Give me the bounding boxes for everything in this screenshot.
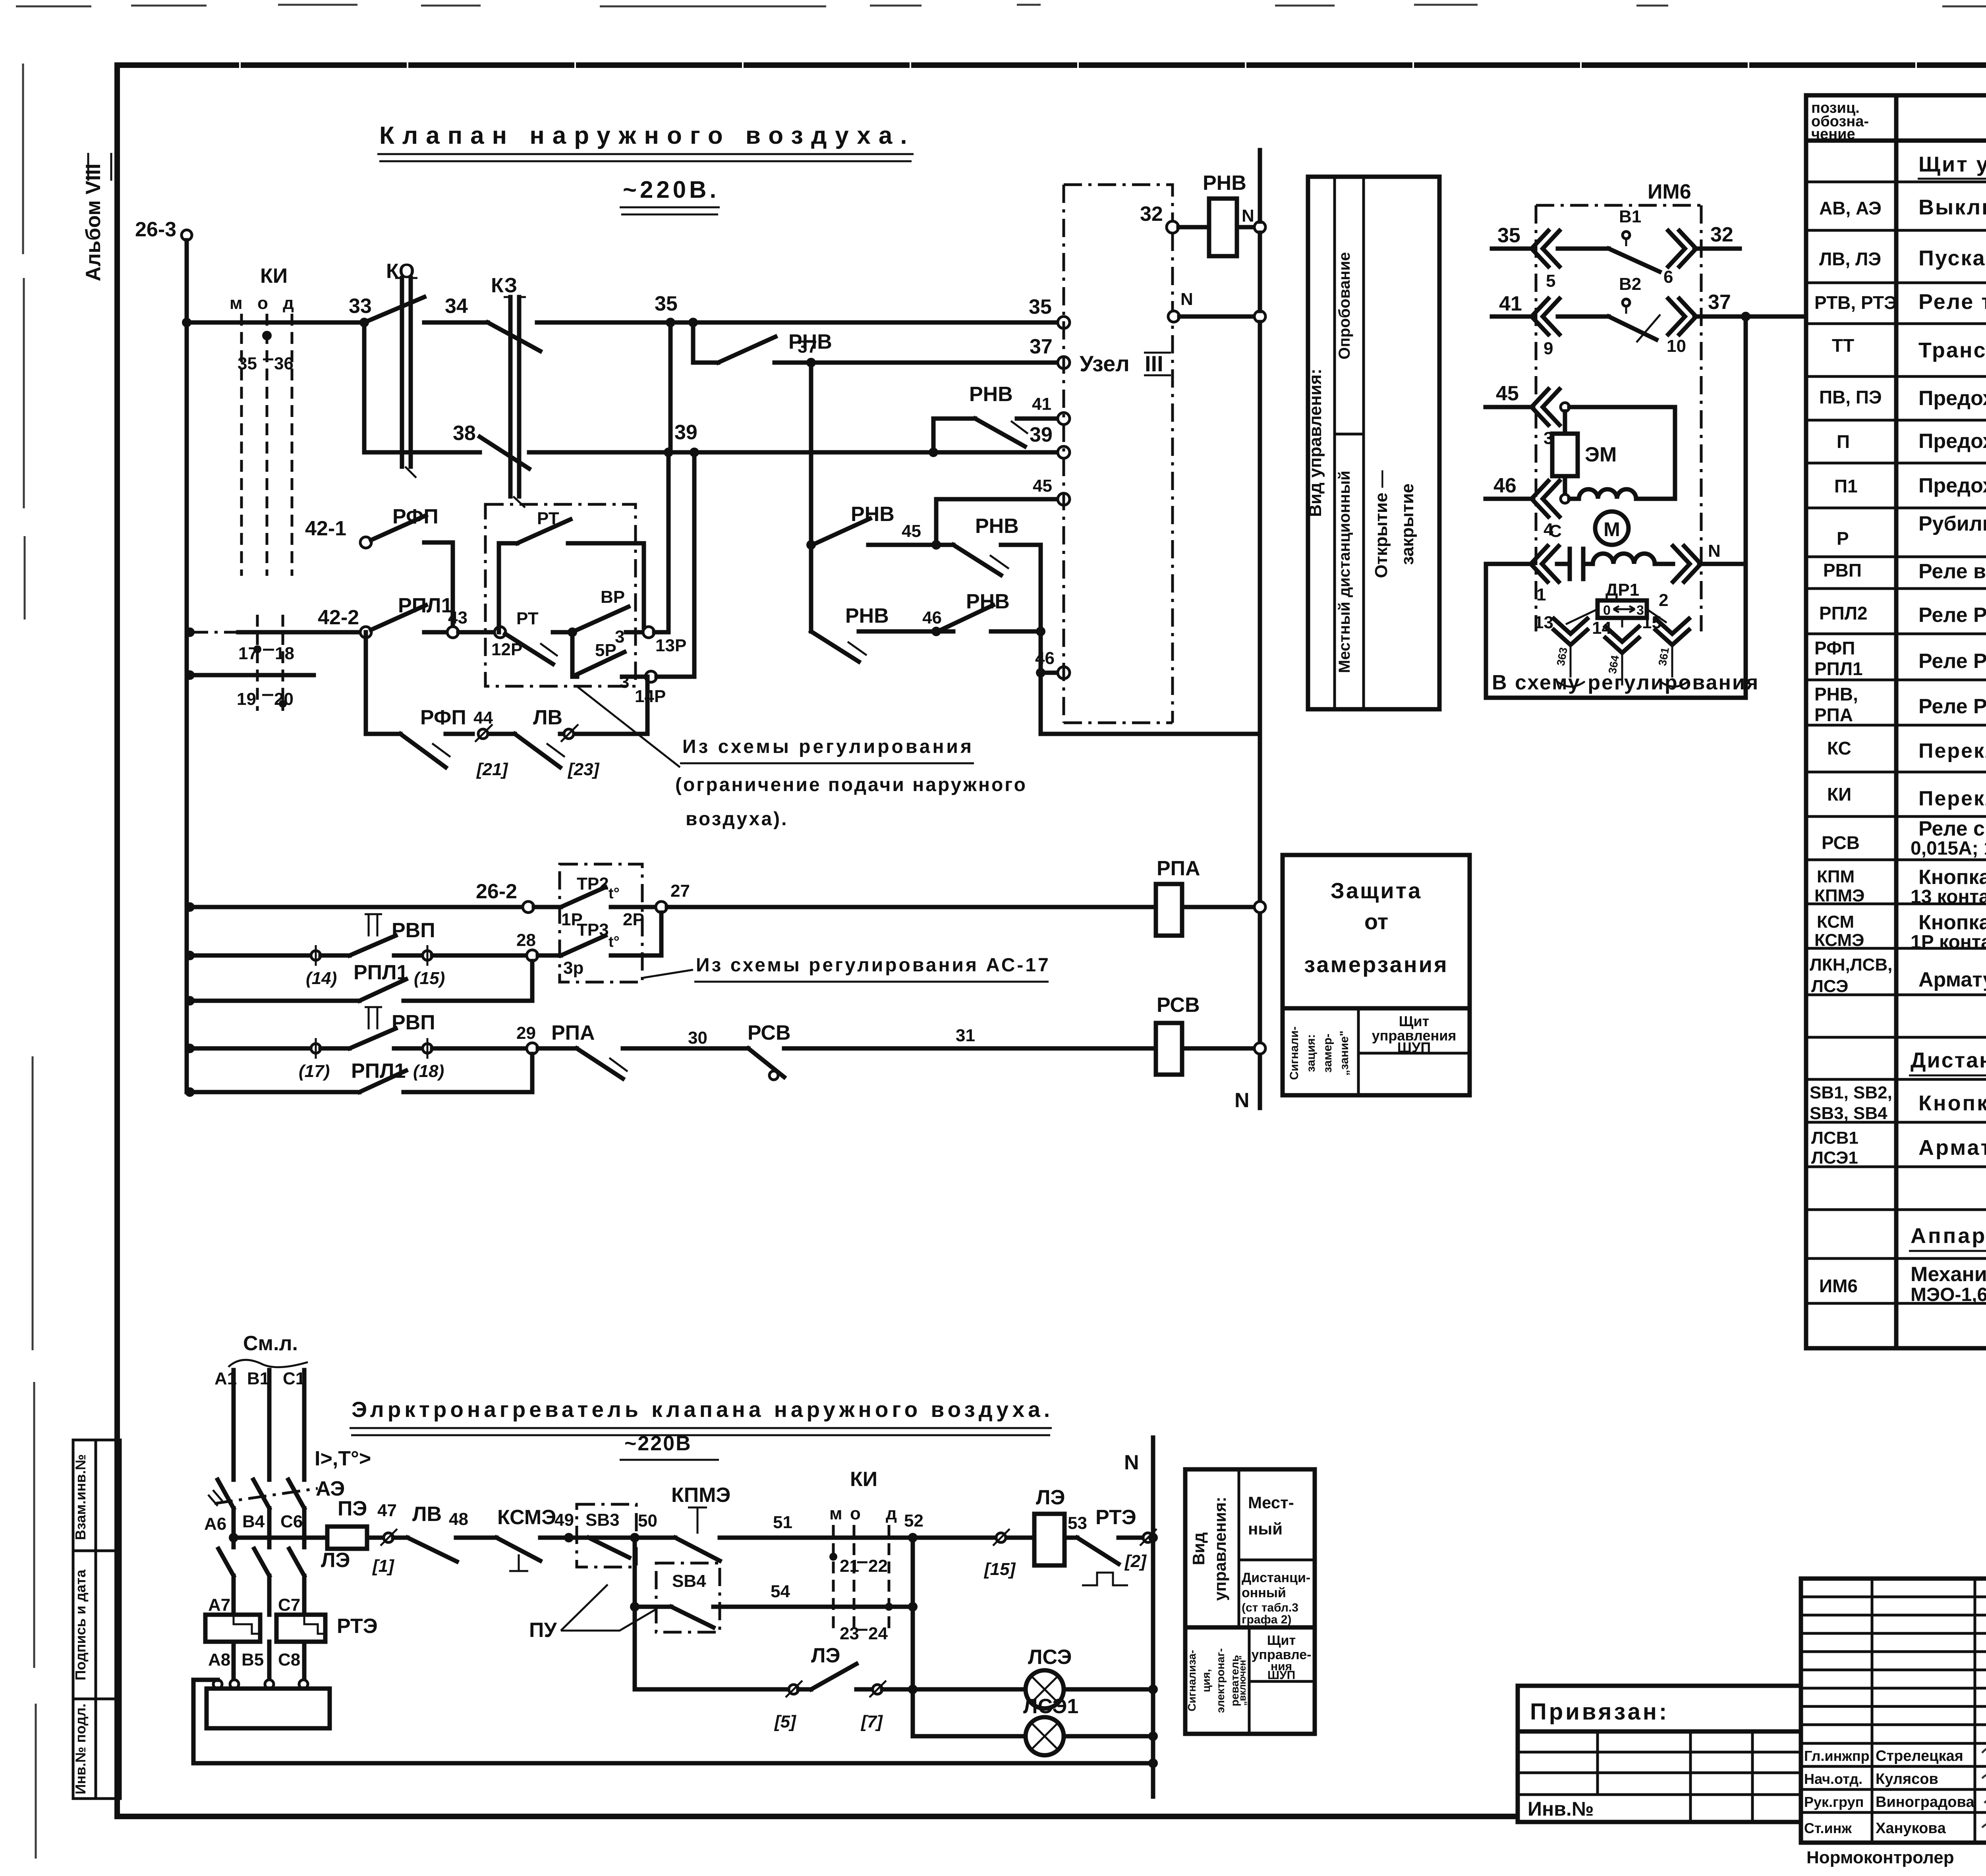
connector pin (14) bbox=[311, 951, 321, 960]
wire bbox=[1558, 315, 1609, 319]
svg-text:Механизм исполнительный: Механизм исполнительный bbox=[1911, 1263, 1986, 1286]
svg-text:А8: А8 bbox=[208, 1650, 230, 1669]
wire to КИ bbox=[727, 1536, 908, 1540]
box Вид управления (upper) bbox=[1308, 177, 1439, 709]
wire bbox=[489, 732, 515, 736]
wire: left supply bus bbox=[185, 240, 189, 1092]
svg-text:44: 44 bbox=[473, 708, 493, 728]
svg-text:Подпись и дата: Подпись и дата bbox=[72, 1569, 89, 1681]
connector chevron (32 out) bbox=[1668, 231, 1696, 266]
svg-text:SВ3, SВ4: SВ3, SВ4 bbox=[1810, 1104, 1887, 1123]
svg-text:РПЛ1: РПЛ1 bbox=[1814, 658, 1863, 679]
svg-text:ция,: ция, bbox=[1200, 1669, 1212, 1693]
svg-text:(ограничение подачи наружного: (ограничение подачи наружного bbox=[675, 774, 1027, 795]
wire: loop top bbox=[1569, 407, 1675, 499]
svg-text:5: 5 bbox=[1546, 271, 1555, 291]
svg-text:Гл.инжпр: Гл.инжпр bbox=[1804, 1748, 1870, 1764]
svg-text:закрытие: закрытие bbox=[1398, 483, 1417, 565]
svg-text:13Р: 13Р bbox=[655, 636, 686, 655]
node 14Р terminal bbox=[645, 671, 657, 682]
svg-text:РФП: РФП bbox=[420, 706, 466, 729]
solenoid ЭМ bbox=[1563, 411, 1567, 494]
svg-text:Взам.инв.№: Взам.инв.№ bbox=[72, 1454, 89, 1540]
connector pin (18) bbox=[423, 1044, 432, 1053]
connector pin [23] bbox=[564, 729, 574, 739]
svg-text:ШУП: ШУП bbox=[1267, 1669, 1295, 1682]
svg-text:РСВ: РСВ bbox=[1157, 994, 1200, 1017]
svg-text:Ст.инж: Ст.инж bbox=[1804, 1820, 1852, 1836]
svg-text:м: м bbox=[230, 293, 243, 313]
svg-text:Рубильник ~660В: Рубильник ~660В bbox=[1918, 512, 1986, 535]
svg-text:онный: онный bbox=[1242, 1585, 1286, 1600]
wire: rail 38-39 bbox=[364, 450, 1058, 455]
svg-text:замер-: замер- bbox=[1321, 1034, 1334, 1073]
node 37 bbox=[806, 358, 816, 367]
svg-text:39: 39 bbox=[674, 421, 697, 444]
svg-text:РТВ, РТЭ: РТВ, РТЭ bbox=[1814, 292, 1897, 313]
svg-text:РСВ: РСВ bbox=[748, 1021, 791, 1044]
svg-text:t°: t° bbox=[609, 934, 620, 950]
node 33 bbox=[359, 318, 369, 327]
svg-text:Сигнализа-: Сигнализа- bbox=[1186, 1650, 1198, 1711]
node on КИ contact О bbox=[262, 331, 272, 340]
svg-text:[1]: [1] bbox=[372, 1556, 394, 1576]
connector chevron (35 in) bbox=[1532, 231, 1559, 266]
svg-text:„включен": „включен" bbox=[1237, 1655, 1248, 1706]
wire: right vertical 45->46->N bbox=[1039, 545, 1043, 734]
svg-text:КИ: КИ bbox=[850, 1468, 877, 1491]
svg-text:Реле сигнальное РУ21/0,015: Реле сигнальное РУ21/0,015 bbox=[1918, 817, 1986, 840]
node bbox=[1561, 403, 1569, 411]
svg-text:КСМЭ: КСМЭ bbox=[497, 1506, 556, 1529]
svg-text:ЛКН,ЛСВ,: ЛКН,ЛСВ, bbox=[1810, 955, 1892, 975]
svg-text:Сигнали-: Сигнали- bbox=[1288, 1027, 1301, 1080]
wire: lower РФП-ЛВ rail bbox=[366, 632, 400, 734]
svg-text:30: 30 bbox=[688, 1028, 707, 1048]
svg-text:ЛСЭ: ЛСЭ bbox=[1811, 977, 1848, 996]
svg-text:31: 31 bbox=[956, 1026, 975, 1045]
svg-text:Открытие —: Открытие — bbox=[1372, 470, 1391, 578]
svg-text:А6: А6 bbox=[204, 1514, 226, 1534]
svg-text:Щит: Щит bbox=[1399, 1013, 1429, 1029]
svg-text:0: 0 bbox=[1603, 603, 1611, 618]
svg-text:46: 46 bbox=[922, 608, 942, 627]
svg-text:3р: 3р bbox=[563, 958, 583, 978]
wire: row С lead bbox=[1486, 562, 1533, 566]
svg-text:Из схемы регулирования АС-17: Из схемы регулирования АС-17 bbox=[696, 955, 1051, 976]
svg-text:ПВ, ПЭ: ПВ, ПЭ bbox=[1819, 387, 1882, 407]
svg-text:Из схемы регулирования: Из схемы регулирования bbox=[682, 736, 974, 757]
svg-text:Хануковa: Хануковa bbox=[1876, 1820, 1946, 1837]
connector pin (17) bbox=[311, 1044, 321, 1053]
svg-text:Местный дистанционный: Местный дистанционный bbox=[1336, 471, 1353, 673]
svg-text:14Р: 14Р bbox=[635, 687, 666, 706]
svg-text:АВ, АЭ: АВ, АЭ bbox=[1819, 198, 1882, 218]
thermal element РТЭ (right) bbox=[276, 1615, 325, 1642]
svg-text:N: N bbox=[1124, 1451, 1139, 1474]
svg-text:50: 50 bbox=[638, 1511, 657, 1531]
svg-text:РПЛ1: РПЛ1 bbox=[351, 1060, 406, 1083]
svg-text:С6: С6 bbox=[280, 1512, 303, 1531]
svg-text:SВ4: SВ4 bbox=[672, 1571, 706, 1591]
svg-text:45: 45 bbox=[1496, 382, 1519, 405]
node on 52 vertical bbox=[908, 1602, 918, 1612]
node on rail 39 at vertical B bbox=[690, 448, 699, 457]
node on 37 row bbox=[1741, 312, 1750, 321]
node 26-2 terminal bbox=[523, 901, 534, 913]
svg-text:КИ: КИ bbox=[1827, 784, 1851, 805]
terminal N (row) bbox=[1168, 311, 1179, 322]
wire: vertical from node 37 down to 46 row bbox=[809, 363, 813, 631]
svg-text:(14): (14) bbox=[306, 969, 337, 988]
wire: node 50 vertical to lamp row bbox=[635, 1607, 789, 1689]
svg-text:41: 41 bbox=[1499, 292, 1522, 315]
button SВ3 in remote box bbox=[577, 1504, 636, 1567]
svg-text:ТТ: ТТ bbox=[1832, 335, 1854, 356]
svg-text:(ст табл.3: (ст табл.3 bbox=[1242, 1601, 1298, 1614]
heater bank bbox=[213, 1680, 222, 1689]
node 42-1 terminal bbox=[360, 537, 371, 548]
wire: 27 to РПА coil bbox=[667, 905, 1156, 909]
node N circle on bus (coil row) bbox=[1254, 222, 1265, 233]
svg-text:КЗ: КЗ bbox=[491, 274, 517, 297]
svg-text:ЛСЭ: ЛСЭ bbox=[1028, 1646, 1072, 1669]
svg-text:Рук.груп: Рук.груп bbox=[1804, 1794, 1864, 1810]
svg-text:Реле РПУ1-361, ~220В, 8з: Реле РПУ1-361, ~220В, 8з bbox=[1918, 604, 1986, 627]
wire: N return to right bus bbox=[1041, 732, 1260, 736]
node 45 row junction bbox=[931, 540, 941, 550]
svg-text:32: 32 bbox=[1140, 203, 1163, 226]
svg-text:2Р: 2Р bbox=[623, 910, 644, 929]
switch КС contacts 17-18 / 19-20 dashed bbox=[257, 615, 283, 711]
svg-text:t°: t° bbox=[609, 885, 620, 902]
svg-text:Щит управления 14ЩУВ (15ЩУВ): Щит управления 14ЩУВ (15ЩУВ) bbox=[1918, 152, 1986, 176]
svg-text:37: 37 bbox=[798, 337, 817, 357]
svg-text:[15]: [15] bbox=[983, 1559, 1016, 1579]
wire: 52 vertical down bbox=[911, 1538, 915, 1736]
svg-text:22: 22 bbox=[868, 1556, 888, 1576]
node 29 terminal bbox=[527, 1043, 538, 1054]
svg-text:[23]: [23] bbox=[567, 760, 600, 779]
svg-text:3: 3 bbox=[620, 672, 629, 692]
svg-text:В схему регулирования: В схему регулирования bbox=[1492, 671, 1759, 694]
svg-text:КПМ: КПМ bbox=[1817, 867, 1855, 886]
svg-text:Вид: Вид bbox=[1189, 1532, 1208, 1565]
svg-text:Клапан наружного воздуха.: Клапан наружного воздуха. bbox=[379, 122, 915, 149]
wire: vertical B from rail39 to 14Р row bbox=[692, 452, 697, 677]
svg-text:51: 51 bbox=[773, 1513, 792, 1532]
stamp box Привязан bbox=[1518, 1686, 1801, 1822]
svg-text:замерзания: замерзания bbox=[1304, 952, 1448, 977]
leader line АС-17 note bbox=[643, 970, 693, 978]
svg-text:КПМЭ: КПМЭ bbox=[671, 1484, 730, 1507]
node on А6 pole bbox=[229, 1533, 238, 1542]
svg-text:КПМЭ: КПМЭ bbox=[1814, 886, 1864, 905]
svg-text:В4: В4 bbox=[242, 1512, 265, 1531]
node on rail 39 at 41-branch bbox=[929, 448, 938, 457]
svg-text:(17): (17) bbox=[299, 1062, 330, 1081]
capacitor С bbox=[1557, 549, 1593, 579]
contactor ЛЭ main poles bbox=[234, 1538, 304, 1547]
svg-text:ИМ6: ИМ6 bbox=[1648, 180, 1691, 203]
svg-text:Защита: Защита bbox=[1331, 878, 1422, 903]
wires into heater bbox=[234, 1642, 304, 1680]
svg-text:чение: чение bbox=[1811, 126, 1855, 143]
svg-text:27: 27 bbox=[670, 881, 690, 901]
svg-text:д: д bbox=[283, 293, 294, 313]
svg-text:35: 35 bbox=[1497, 224, 1520, 247]
node 45-row left bbox=[806, 540, 816, 550]
svg-text:МЭО-1,6/25 - 0,25И: МЭО-1,6/25 - 0,25И bbox=[1911, 1284, 1986, 1305]
wire: right N bus bbox=[1258, 150, 1262, 1108]
breaker АЭ (3 poles) bbox=[218, 1480, 304, 1508]
button SВ4 in remote box bbox=[656, 1563, 720, 1632]
svg-text:РНВ: РНВ bbox=[969, 383, 1013, 406]
inductor winding (С row) bbox=[1593, 554, 1655, 564]
svg-text:С: С bbox=[1549, 521, 1562, 541]
svg-text:Пускатель магнитный: Пускатель магнитный bbox=[1918, 246, 1986, 270]
svg-text:Инв.№: Инв.№ bbox=[1528, 1798, 1594, 1820]
connector chevron (46 in) bbox=[1532, 481, 1559, 517]
node 43 terminal bbox=[447, 627, 458, 638]
wire: 45 row bbox=[868, 543, 953, 547]
wire: right return vertical bbox=[1744, 317, 1748, 698]
svg-text:управления:: управления: bbox=[1211, 1497, 1229, 1601]
svg-text:1: 1 bbox=[1536, 585, 1546, 604]
svg-text:ЛВ, ЛЭ: ЛВ, ЛЭ bbox=[1819, 249, 1881, 269]
svg-text:35: 35 bbox=[1029, 295, 1052, 318]
svg-text:(18): (18) bbox=[413, 1062, 444, 1081]
svg-text:См.л.: См.л. bbox=[243, 1332, 298, 1355]
wire: row 37 to table edge bbox=[1694, 315, 1806, 319]
svg-text:РТЭ: РТЭ bbox=[1095, 1506, 1136, 1529]
svg-text:КСМ: КСМ bbox=[1817, 912, 1854, 932]
wires from ДР1 to connectors bbox=[1566, 609, 1667, 627]
connector pin [2] bbox=[1143, 1533, 1153, 1542]
svg-text:Стрелецкая: Стрелецкая bbox=[1876, 1748, 1963, 1764]
svg-text:С8: С8 bbox=[278, 1650, 300, 1669]
svg-text:Предохранитель ПРС-6-П,~380В,: Предохранитель ПРС-6-П,~380В,ПВД-6 bbox=[1918, 387, 1986, 410]
wire: С row left loop bbox=[1486, 564, 1746, 698]
svg-text:[7]: [7] bbox=[860, 1712, 883, 1731]
svg-text:РПА: РПА bbox=[1157, 857, 1200, 880]
svg-text:6: 6 bbox=[1663, 267, 1673, 287]
node 35 bbox=[666, 318, 675, 327]
svg-text:26-2: 26-2 bbox=[476, 880, 517, 903]
svg-text:45: 45 bbox=[1033, 476, 1052, 496]
terminal 46 bbox=[1058, 667, 1070, 679]
wire: row 32 right lead bbox=[1694, 247, 1740, 251]
svg-text:Виноградова: Виноградова bbox=[1876, 1794, 1974, 1810]
node 52 bbox=[908, 1533, 918, 1542]
svg-text:РНВ,: РНВ, bbox=[1814, 684, 1858, 704]
boundary узел III dash-dot bbox=[1064, 185, 1173, 222]
svg-text:23: 23 bbox=[840, 1624, 859, 1643]
svg-text:П: П bbox=[1837, 431, 1850, 452]
wire: 41 branch bbox=[933, 419, 1058, 452]
connector pin [7] bbox=[873, 1685, 882, 1694]
brace curve bbox=[1557, 681, 1688, 687]
svg-text:43: 43 bbox=[448, 608, 468, 627]
svg-text:ЛСЭ1: ЛСЭ1 bbox=[1023, 1695, 1078, 1718]
svg-text:электронаг-: электронаг- bbox=[1214, 1648, 1227, 1713]
wire: to 28 bbox=[432, 953, 527, 958]
box Сигнализация замерзание bbox=[1283, 1008, 1470, 1095]
wire: 13Р to vertical A bbox=[654, 630, 668, 635]
connector pin (15) bbox=[423, 951, 432, 960]
left bottom stamp box bbox=[73, 1440, 120, 1799]
svg-text:45: 45 bbox=[902, 521, 921, 541]
terminal 37 bbox=[1058, 357, 1070, 369]
svg-text:Реле РПУ1-362,·~220В, 6з+2р: Реле РПУ1-362,·~220В, 6з+2р bbox=[1918, 650, 1986, 673]
svg-text:Привязан:: Привязан: bbox=[1530, 1699, 1669, 1725]
connector chevron (45 in) bbox=[1532, 389, 1559, 425]
svg-text:41: 41 bbox=[1032, 394, 1051, 414]
thermal element РТЭ (left) bbox=[205, 1615, 260, 1642]
connector chevron (37 out) bbox=[1668, 299, 1696, 334]
wire to node 29 bbox=[432, 1046, 527, 1051]
svg-text:ЛСЭ1: ЛСЭ1 bbox=[1811, 1148, 1858, 1168]
svg-text:13 контакт: 13 контакт bbox=[1911, 886, 1986, 907]
svg-text:воздуха).: воздуха). bbox=[686, 809, 788, 830]
svg-text:РНВ: РНВ bbox=[975, 515, 1019, 538]
svg-text:Элрктронагреватель клапана н: Элрктронагреватель клапана наружного воз… bbox=[352, 1397, 1053, 1422]
wire 52 to ЛЭ coil bbox=[913, 1536, 1034, 1540]
svg-text:33: 33 bbox=[349, 295, 372, 318]
leader line to note bbox=[577, 686, 680, 767]
svg-text:П1: П1 bbox=[1834, 476, 1858, 496]
wire: stub rail 19-20 bbox=[190, 673, 314, 677]
svg-text:Арматура сигнальная: Арматура сигнальная bbox=[1918, 1136, 1986, 1160]
svg-text:52: 52 bbox=[904, 1511, 923, 1531]
svg-text:35: 35 bbox=[238, 354, 257, 373]
svg-text:КС: КС bbox=[1827, 738, 1851, 759]
svg-text:РФП: РФП bbox=[392, 505, 439, 528]
svg-text:Реле времени ВС-10-63,~220В,6: Реле времени ВС-10-63,~220В,6П bbox=[1918, 560, 1986, 583]
svg-text:ИМ6: ИМ6 bbox=[1819, 1276, 1858, 1296]
svg-text:Альбом VIII: Альбом VIII bbox=[82, 164, 105, 282]
svg-text:ДР1: ДР1 bbox=[1605, 580, 1639, 600]
wire: 33 down to rail 38 bbox=[362, 322, 367, 452]
svg-text:N: N bbox=[1180, 290, 1193, 309]
box Защита от замерзания bbox=[1283, 855, 1470, 1008]
wire: РНВ branch from rail1 to rail 37 bbox=[693, 322, 718, 363]
svg-text:Кнопка управления КМЕ 6101: Кнопка управления КМЕ 6101 bbox=[1918, 911, 1986, 934]
svg-text:РПА: РПА bbox=[1814, 704, 1853, 725]
connector chevron (С row) bbox=[1531, 546, 1559, 582]
node on rail 39 at vertical A bbox=[664, 448, 673, 457]
svg-text:9: 9 bbox=[1544, 339, 1553, 358]
svg-text:36: 36 bbox=[274, 354, 294, 373]
svg-text:(15): (15) bbox=[414, 969, 445, 988]
svg-text:от: от bbox=[1364, 909, 1388, 934]
svg-text:Предохранитель ППТ-10,~250В,: Предохранитель ППТ-10,~250В, ВТФ-6 bbox=[1918, 474, 1986, 497]
node bbox=[1561, 494, 1569, 503]
svg-text:В5: В5 bbox=[241, 1650, 264, 1669]
svg-text:РТЭ: РТЭ bbox=[337, 1615, 378, 1638]
svg-text:Аппаратура по месту: Аппаратура по месту bbox=[1911, 1224, 1986, 1248]
svg-text:ПЭ: ПЭ bbox=[338, 1497, 367, 1520]
svg-text:53: 53 bbox=[1068, 1513, 1087, 1533]
svg-text:I>,Т°>: I>,Т°> bbox=[315, 1447, 371, 1470]
svg-text:ВР: ВР bbox=[601, 587, 625, 607]
wire: heater return bbox=[193, 1680, 1153, 1763]
svg-text:о: о bbox=[850, 1504, 861, 1523]
svg-text:зация:: зация: bbox=[1304, 1034, 1318, 1072]
wire: rail 1 (nodes 33-34-35) bbox=[187, 320, 1058, 325]
svg-text:ЛЭ: ЛЭ bbox=[1036, 1486, 1065, 1509]
node 27 terminal bbox=[656, 901, 667, 913]
svg-text:39: 39 bbox=[1030, 423, 1053, 446]
svg-text:ЭМ: ЭМ bbox=[1585, 443, 1617, 466]
terminal 45 bbox=[1058, 493, 1070, 505]
svg-text:49: 49 bbox=[554, 1510, 574, 1530]
svg-text:19: 19 bbox=[237, 689, 256, 709]
svg-text:18: 18 bbox=[275, 644, 294, 663]
svg-text:34: 34 bbox=[445, 295, 468, 318]
svg-text:42-1: 42-1 bbox=[305, 517, 346, 540]
terminal 32 bbox=[1167, 221, 1178, 233]
svg-text:С1: С1 bbox=[283, 1369, 305, 1388]
node 12Р terminal bbox=[495, 627, 506, 638]
wire: 43 to 12Р bbox=[458, 630, 495, 635]
svg-text:48: 48 bbox=[449, 1509, 468, 1529]
svg-text:КИ: КИ bbox=[260, 264, 288, 288]
svg-text:46: 46 bbox=[1035, 648, 1055, 668]
svg-text:Переключатель ПКУ3-16 И 2014: Переключатель ПКУ3-16 И 2014 bbox=[1918, 739, 1986, 762]
wire: rail 26-2 to 27 bbox=[190, 905, 523, 909]
svg-text:ПУ: ПУ bbox=[529, 1619, 557, 1642]
svg-text:Дистанционный пост управления: Дистанционный пост управления ПУ bbox=[1911, 1048, 1986, 1072]
svg-text:28: 28 bbox=[516, 930, 536, 950]
wire: lamp ЛСЭ1 row bbox=[913, 1734, 1026, 1739]
svg-text:М: М bbox=[1603, 518, 1620, 540]
svg-text:Инв.№ подл.: Инв.№ подл. bbox=[72, 1704, 89, 1795]
svg-text:ЛВ: ЛВ bbox=[412, 1503, 442, 1526]
svg-text:Трансформатор тока: Трансформатор тока bbox=[1918, 338, 1986, 362]
node 28 terminal bbox=[527, 950, 538, 961]
wire to lamp ЛСЭ bbox=[882, 1687, 1026, 1692]
node 42-2 terminal bbox=[360, 627, 371, 638]
thermostat ТР2-ТР3 dashed enclosure bbox=[560, 864, 642, 982]
wire: row 54 bbox=[720, 1605, 913, 1609]
svg-text:ШУП: ШУП bbox=[1397, 1039, 1431, 1056]
wire: branch to terminal 46 bbox=[1036, 668, 1045, 677]
wires below connectors bbox=[1571, 645, 1672, 685]
motor М bbox=[1595, 511, 1629, 545]
svg-text:Вид управления:: Вид управления: bbox=[1306, 369, 1325, 517]
svg-text:„зание": „зание" bbox=[1338, 1031, 1351, 1076]
wire: up to terminal 45 bbox=[936, 499, 1058, 545]
svg-text:~220В: ~220В bbox=[624, 1432, 692, 1455]
svg-text:м: м bbox=[829, 1504, 842, 1523]
svg-text:SВ1, SВ2,: SВ1, SВ2, bbox=[1810, 1083, 1892, 1102]
svg-text:III: III bbox=[1145, 351, 1163, 376]
svg-text:РНВ: РНВ bbox=[1203, 172, 1246, 195]
svg-text:РВП: РВП bbox=[392, 1011, 435, 1034]
svg-text:В1: В1 bbox=[247, 1369, 269, 1388]
svg-text:0,015А; 1з, 1р.: 0,015А; 1з, 1р. bbox=[1911, 838, 1986, 859]
wire: 14Р to vertical B bbox=[657, 675, 694, 679]
svg-text:Р: Р bbox=[1837, 528, 1849, 549]
svg-text:10: 10 bbox=[1667, 336, 1686, 356]
svg-text:о: о bbox=[257, 293, 268, 313]
terminal 41 bbox=[1058, 413, 1070, 425]
svg-text:РФП: РФП bbox=[1814, 638, 1855, 658]
svg-text:Мест-: Мест- bbox=[1248, 1493, 1294, 1512]
svg-text:Кулясов: Кулясов bbox=[1876, 1771, 1938, 1787]
svg-text:[21]: [21] bbox=[476, 760, 508, 779]
